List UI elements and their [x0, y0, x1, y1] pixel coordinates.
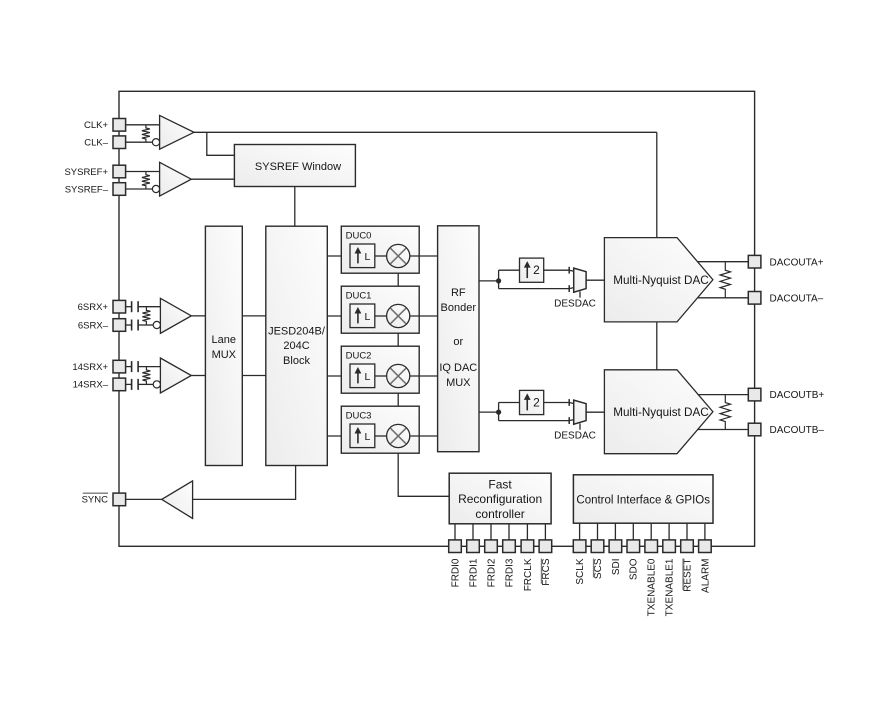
buffer CLK input — [160, 115, 194, 149]
resistor SYSREF termination — [142, 172, 150, 190]
svg-text:FRDI3: FRDI3 — [504, 558, 515, 587]
wire JESD to DUC3 — [327, 435, 350, 437]
mixer DUC2 — [387, 364, 410, 387]
svg-text:DACOUTB–: DACOUTB– — [770, 425, 825, 436]
label FRCLK — [523, 558, 534, 591]
wire DACOUTA+ — [698, 261, 749, 263]
resistor CLK termination — [142, 125, 150, 142]
wire clock rail down to Multi-Nyquist DAC A — [656, 132, 658, 237]
svg-text:FRCS: FRCS — [541, 558, 552, 586]
svg-text:L: L — [364, 311, 370, 323]
label FRDI0 — [450, 558, 461, 587]
pin RESET — [681, 540, 694, 553]
wire Control Interface to pin SDO — [632, 523, 634, 540]
interpolator DUC3 (up-sample by L) — [350, 424, 375, 448]
label ALARM — [700, 559, 711, 593]
svg-text:2: 2 — [533, 263, 540, 277]
wire Control Interface to pin ALARM — [704, 523, 706, 540]
wire NCO rail from mixers to Fast Reconfiguration controller — [398, 268, 449, 497]
svg-text:FRDI2: FRDI2 — [486, 558, 497, 587]
wire SYSREF Window to JESD block — [294, 187, 296, 227]
wire SYSREF buffer output to SYSREF Window — [191, 178, 234, 180]
wire interpolator to mixer DUC2 — [375, 375, 387, 377]
pin 6SRX- — [113, 319, 126, 332]
svg-text:SCS: SCS — [593, 558, 604, 579]
wire junction to DESDAC mux B input 2 — [499, 420, 570, 422]
wire branch to SYSREF Window — [207, 132, 235, 155]
svg-text:JESD204B/: JESD204B/ — [268, 325, 326, 337]
SYSREF Window block — [234, 145, 355, 187]
wire CLK+ to buffer — [125, 124, 159, 126]
label SDI — [611, 559, 622, 576]
svg-text:FRDI0: FRDI0 — [450, 558, 461, 587]
wire SYNC buffer to pin — [124, 498, 161, 500]
label FRCS — [541, 558, 552, 586]
DUC3 block — [341, 406, 419, 453]
interpolator x2 B — [520, 390, 544, 414]
svg-text:IQ DAC: IQ DAC — [439, 362, 477, 374]
label RESET — [682, 559, 693, 592]
wire Lane MUX to JESD lane 0 — [242, 315, 265, 317]
label FRDI3 — [504, 558, 515, 587]
wire JESD to DUC1 — [327, 315, 350, 317]
resistor DACOUTA load — [720, 262, 730, 298]
wire CLK buffer output to DAC clock rail — [194, 131, 657, 133]
svg-text:L: L — [364, 431, 370, 443]
svg-text:Block: Block — [283, 355, 310, 367]
svg-text:TXENABLE0: TXENABLE0 — [647, 558, 658, 616]
wire 14SRX- to buffer bubble — [125, 383, 131, 385]
resistor DACOUTB load — [720, 395, 730, 430]
pin DACOUTA+ — [748, 255, 761, 268]
pin FRDI0 — [449, 540, 462, 553]
svg-text:or: or — [453, 336, 463, 348]
label TXENABLE1 — [665, 558, 676, 616]
pin DACOUTB- — [748, 423, 761, 436]
svg-text:Bonder: Bonder — [441, 302, 477, 314]
wire 14SRX+ to buffer — [125, 366, 131, 368]
svg-text:Fast: Fast — [488, 478, 512, 492]
interpolator DUC1 (up-sample by L) — [350, 304, 375, 328]
svg-text:TXENABLE1: TXENABLE1 — [665, 558, 676, 616]
Lane MUX block — [205, 226, 242, 465]
wire Control Interface to pin TXENABLE0 — [650, 523, 652, 540]
svg-text:SYSREF–: SYSREF– — [65, 184, 109, 195]
resistor 14SRX termination — [142, 367, 150, 385]
svg-text:DUC1: DUC1 — [346, 290, 372, 301]
svg-text:DUC2: DUC2 — [346, 350, 372, 361]
wire 6SRX+ to buffer — [125, 306, 131, 308]
pin ALARM — [699, 540, 712, 553]
svg-text:ALARM: ALARM — [700, 559, 711, 593]
svg-text:CLK+: CLK+ — [84, 120, 108, 131]
wire Fast Reconfiguration controller to pin FRCS — [544, 524, 546, 540]
wire SYSREF- to buffer bubble — [125, 188, 152, 190]
wire DACOUTB+ — [698, 394, 749, 396]
svg-text:FRDI1: FRDI1 — [468, 558, 479, 587]
label SCS — [593, 558, 604, 579]
wire DESDAC mux select stub A — [579, 291, 581, 297]
wire DACOUTB- — [698, 429, 749, 431]
mixer DUC1 — [387, 304, 410, 327]
wire 14SRX buffer output to Lane MUX — [191, 375, 205, 377]
wire RF bonder to DESDAC B junction — [479, 411, 499, 413]
wire Fast Reconfiguration controller to pin FRDI1 — [472, 524, 474, 540]
capacitor 6SRX- AC coupling — [131, 320, 133, 331]
wire DESDAC mux to Multi-Nyquist DAC A — [586, 279, 604, 281]
wire mixer DUC1 to RF bonder — [410, 315, 438, 317]
pin SCLK — [573, 540, 586, 553]
svg-text:SYSREF+: SYSREF+ — [64, 167, 108, 178]
Multi-Nyquist DAC B — [604, 370, 713, 454]
pin FRCS — [539, 540, 552, 553]
wire x2 to DESDAC mux B input 1 — [544, 402, 570, 404]
label TXENABLE0 — [647, 558, 658, 616]
capacitor 6SRX+ AC coupling — [131, 301, 133, 312]
wire RF bonder to DESDAC A junction — [479, 280, 499, 282]
wire Control Interface to pin SDI — [614, 523, 616, 540]
interpolator DUC0 (up-sample by L) — [350, 244, 375, 268]
svg-text:DACOUTA+: DACOUTA+ — [770, 257, 824, 268]
Multi-Nyquist DAC A — [604, 238, 713, 322]
mixer DUC0 — [387, 244, 410, 267]
pin DACOUTA- — [748, 292, 761, 305]
svg-text:Control Interface & GPIOs: Control Interface & GPIOs — [576, 494, 710, 506]
pin SCS — [591, 540, 604, 553]
wire interpolator to mixer DUC1 — [375, 315, 387, 317]
wire junction to DESDAC mux A input 2 — [499, 288, 570, 290]
DUC2 block — [341, 346, 419, 393]
buffer SYSREF input — [160, 162, 192, 196]
svg-text:MUX: MUX — [446, 377, 471, 389]
svg-text:DACOUTA–: DACOUTA– — [770, 293, 824, 304]
svg-text:L: L — [364, 371, 370, 383]
resistor 6SRX termination — [142, 307, 150, 325]
label SDO — [629, 558, 640, 580]
wire JESD to DUC2 — [327, 375, 350, 377]
JESD204B/204C block — [266, 226, 328, 465]
wire to x2 interpolator A — [499, 269, 520, 271]
svg-text:SCLK: SCLK — [575, 558, 586, 584]
DUC1 block — [341, 286, 419, 333]
pin FRCLK — [521, 540, 534, 553]
svg-text:L: L — [364, 251, 370, 263]
svg-text:DESDAC: DESDAC — [554, 431, 596, 442]
svg-text:Multi-Nyquist DAC: Multi-Nyquist DAC — [613, 406, 708, 419]
mux DESDAC A — [574, 268, 586, 292]
label FRDI2 — [486, 558, 497, 587]
pin FRDI2 — [485, 540, 498, 553]
capacitor 14SRX- AC coupling — [131, 379, 133, 390]
pin SYSREF- — [113, 183, 126, 196]
wire mixer DUC2 to RF bonder — [410, 375, 438, 377]
svg-text:6SRX–: 6SRX– — [78, 320, 109, 331]
wire Lane MUX to JESD lane 1 — [242, 375, 265, 377]
wire DESDAC mux to Multi-Nyquist DAC B — [586, 411, 604, 413]
svg-text:SYNC: SYNC — [82, 495, 109, 506]
wire junction A vertical split — [498, 270, 500, 288]
svg-text:DUC3: DUC3 — [346, 410, 372, 421]
buffer 14SRX receiver — [160, 358, 191, 393]
svg-text:14SRX+: 14SRX+ — [72, 362, 108, 373]
pin TXENABLE0 — [645, 540, 658, 553]
wire mixer DUC0 to RF bonder — [410, 255, 438, 257]
node junction B — [496, 410, 501, 415]
Fast Reconfiguration controller block — [449, 473, 551, 524]
wire interpolator to mixer DUC3 — [375, 435, 387, 437]
pin CLK- — [113, 136, 126, 149]
svg-text:controller: controller — [475, 507, 524, 521]
svg-text:RF: RF — [451, 287, 466, 299]
pin DACOUTB+ — [748, 388, 761, 401]
pin TXENABLE1 — [663, 540, 676, 553]
wire Fast Reconfiguration controller to pin FRDI0 — [454, 524, 456, 540]
pin CLK+ — [113, 119, 126, 132]
svg-text:2: 2 — [533, 396, 540, 410]
pin 6SRX+ — [113, 300, 126, 313]
DUC0 block — [341, 226, 419, 273]
wire DESDAC mux select stub B — [579, 423, 581, 429]
pin SYSREF+ — [113, 165, 126, 178]
wire clock rail between DACs — [656, 322, 658, 370]
wire Control Interface to pin RESET — [686, 523, 688, 540]
svg-text:Lane: Lane — [212, 334, 236, 346]
wire interpolator to mixer DUC0 — [375, 255, 387, 257]
svg-text:SYSREF Window: SYSREF Window — [255, 161, 341, 173]
Control Interface & GPIOs block — [573, 475, 713, 523]
pin SDO — [627, 540, 640, 553]
wire JESD to SYNC buffer — [193, 466, 296, 500]
buffer 6SRX receiver — [160, 298, 191, 333]
svg-text:Multi-Nyquist DAC: Multi-Nyquist DAC — [613, 274, 708, 287]
svg-text:FRCLK: FRCLK — [523, 558, 534, 591]
svg-text:Reconfiguration: Reconfiguration — [458, 492, 542, 506]
svg-text:MUX: MUX — [212, 349, 237, 361]
wire Control Interface to pin SCS — [597, 523, 599, 540]
wire Fast Reconfiguration controller to pin FRDI2 — [490, 524, 492, 540]
svg-text:DESDAC: DESDAC — [554, 299, 596, 310]
label SCLK — [575, 558, 586, 584]
svg-text:SDO: SDO — [629, 558, 640, 580]
svg-text:SDI: SDI — [611, 559, 622, 576]
wire mixer DUC3 to RF bonder — [410, 435, 438, 437]
pin FRDI3 — [503, 540, 516, 553]
pin 14SRX+ — [113, 360, 126, 373]
wire junction B vertical split — [498, 403, 500, 421]
wire Control Interface to pin SCLK — [579, 523, 581, 540]
wire Fast Reconfiguration controller to pin FRDI3 — [508, 524, 510, 540]
interpolator x2 A — [520, 258, 544, 282]
wire 6SRX buffer output to Lane MUX — [191, 315, 205, 317]
wire to x2 interpolator B — [499, 402, 520, 404]
svg-text:DUC0: DUC0 — [346, 230, 372, 241]
buffer SYNC driver — [162, 481, 193, 519]
pin SYNC — [113, 493, 126, 506]
svg-text:14SRX–: 14SRX– — [73, 380, 109, 391]
svg-text:204C: 204C — [283, 340, 309, 352]
wire 6SRX- to buffer bubble — [125, 324, 131, 326]
wire CLK- to buffer bubble — [125, 141, 152, 143]
pin 14SRX- — [113, 378, 126, 391]
svg-text:DACOUTB+: DACOUTB+ — [770, 390, 825, 401]
pin FRDI1 — [467, 540, 480, 553]
mixer DUC3 — [387, 424, 410, 447]
pin SDI — [609, 540, 622, 553]
mux DESDAC B — [574, 400, 586, 424]
wire Control Interface to pin TXENABLE1 — [668, 523, 670, 540]
wire SYSREF+ to buffer — [125, 171, 159, 173]
outer chip boundary — [119, 91, 755, 546]
wire DACOUTA- — [698, 297, 749, 299]
wire x2 to DESDAC mux A input 1 — [544, 269, 570, 271]
svg-text:RESET: RESET — [682, 559, 693, 592]
interpolator DUC2 (up-sample by L) — [350, 364, 375, 388]
svg-text:CLK–: CLK– — [84, 138, 108, 149]
node junction A — [496, 278, 501, 283]
capacitor 14SRX+ AC coupling — [131, 361, 133, 372]
wire JESD to DUC0 — [327, 255, 350, 257]
RF Bonder / IQ DAC MUX block — [438, 226, 479, 452]
label FRDI1 — [468, 558, 479, 587]
svg-text:6SRX+: 6SRX+ — [78, 302, 109, 313]
wire Fast Reconfiguration controller to pin FRCLK — [526, 524, 528, 540]
